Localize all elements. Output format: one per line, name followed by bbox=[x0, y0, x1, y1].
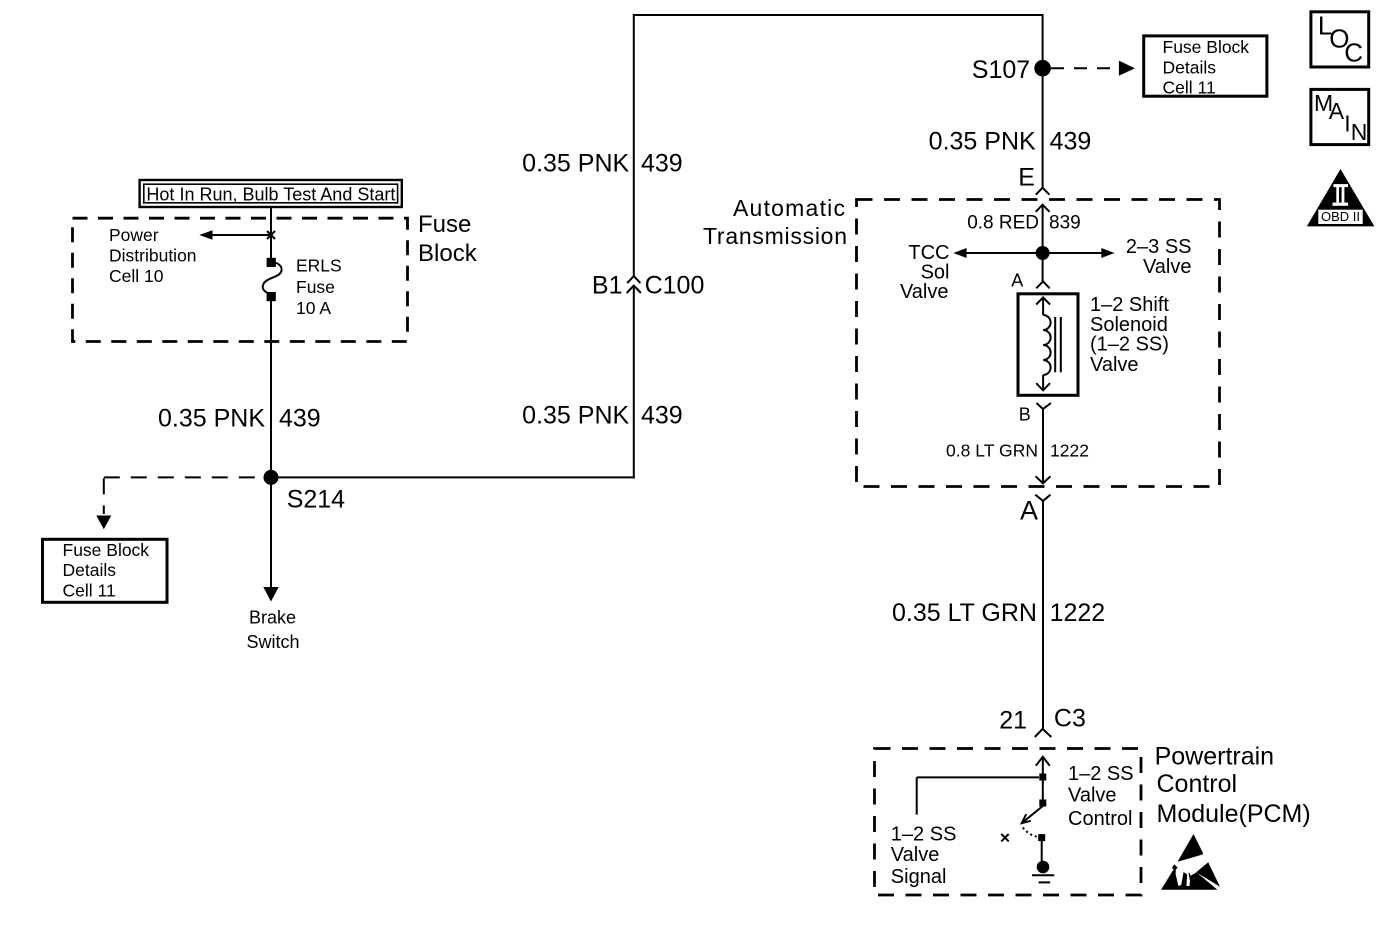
x mark at wire crossing bbox=[267, 231, 275, 239]
wire horizontal from S214 to middle vertical bbox=[271, 476, 635, 478]
wire from fuse down to S214 bbox=[270, 300, 272, 478]
svg-text:Hot In Run, Bulb Test And Star: Hot In Run, Bulb Test And Start bbox=[146, 184, 395, 204]
svg-text:N: N bbox=[1351, 119, 1368, 145]
dotted travel arc bbox=[1023, 828, 1038, 837]
svg-text:439: 439 bbox=[1050, 128, 1092, 156]
dashed arrow S107 to details box bbox=[1051, 61, 1135, 76]
svg-text:A: A bbox=[1020, 496, 1038, 526]
svg-text:0.35 PNK: 0.35 PNK bbox=[522, 150, 629, 178]
svg-text:C: C bbox=[1344, 37, 1363, 67]
node square 3 bbox=[1038, 834, 1045, 841]
arrowhead to Fuse Block Details box bbox=[96, 516, 111, 530]
wire square3 to ground bbox=[1041, 841, 1043, 861]
svg-text:E: E bbox=[1018, 164, 1035, 192]
brake switch arrow bbox=[263, 484, 278, 602]
svg-text:C100: C100 bbox=[645, 271, 705, 299]
node square 1 (valve signal tap) bbox=[1039, 774, 1046, 781]
connector chevron at E bbox=[1036, 188, 1050, 195]
solenoid core lines bbox=[1055, 317, 1061, 372]
svg-text:839: 839 bbox=[1049, 212, 1081, 233]
svg-text:1222: 1222 bbox=[1050, 440, 1089, 460]
wire from B down with arrow at AT box edge bbox=[1036, 409, 1051, 484]
x mark bbox=[1001, 834, 1008, 841]
wire from TCC dot to solenoid connector bbox=[1042, 253, 1044, 281]
arrows to TCC Sol Valve and 2-3 SS Valve bbox=[953, 248, 1114, 258]
svg-text:0.35 PNK: 0.35 PNK bbox=[929, 128, 1036, 156]
wire vertical right (x=1043) top segment bbox=[1042, 14, 1044, 188]
fuse ERLS (squares + S-curve) bbox=[263, 258, 282, 301]
svg-text:0.35 PNK: 0.35 PNK bbox=[522, 402, 629, 430]
svg-text:0.8 LT GRN: 0.8 LT GRN bbox=[946, 440, 1038, 460]
svg-text:Transmission: Transmission bbox=[703, 223, 847, 249]
ESD sensitivity symbol bbox=[1161, 834, 1220, 890]
svg-text:Automatic: Automatic bbox=[733, 195, 845, 221]
svg-text:Switch: Switch bbox=[246, 632, 299, 652]
wire to 1-2 SS valve signal bbox=[917, 777, 1039, 814]
solenoid coil element bbox=[1036, 297, 1050, 390]
svg-text:I: I bbox=[1344, 110, 1350, 136]
svg-text:Brake: Brake bbox=[249, 608, 296, 628]
svg-text:OBD II: OBD II bbox=[1321, 209, 1360, 224]
wire from Hot box into fuse bbox=[270, 208, 272, 260]
wire vertical middle (x=634) bbox=[633, 14, 635, 276]
PCM dashed box bbox=[875, 749, 1142, 896]
svg-text:B: B bbox=[1019, 405, 1031, 425]
svg-text:S214: S214 bbox=[287, 485, 345, 513]
TCC junction dot bbox=[1036, 246, 1050, 260]
wire square1 to square2 bbox=[1042, 780, 1044, 800]
wire from A connector down to C3 bbox=[1042, 501, 1044, 730]
svg-text:0.8 RED: 0.8 RED bbox=[967, 212, 1039, 233]
wire top horizontal bus bbox=[634, 14, 1043, 16]
node S214 junction dot bbox=[264, 470, 279, 485]
svg-text:B1: B1 bbox=[592, 271, 623, 299]
node square 2 (switch pivot) bbox=[1039, 800, 1046, 807]
arrow to Power Distribution bbox=[199, 230, 271, 240]
1-2 shift solenoid box bbox=[1018, 294, 1078, 396]
svg-text:0.35 LT GRN: 0.35 LT GRN bbox=[892, 599, 1037, 627]
svg-text:A: A bbox=[1329, 98, 1345, 124]
wire vertical middle lower segment below C100 bbox=[633, 286, 635, 479]
label box Hot In Run, Bulb Test And Start bbox=[140, 180, 402, 207]
svg-text:439: 439 bbox=[641, 150, 683, 178]
MAIN icon box bbox=[1311, 89, 1369, 144]
svg-text:1222: 1222 bbox=[1050, 599, 1106, 627]
node S107 junction dot bbox=[1034, 60, 1051, 77]
svg-text:439: 439 bbox=[641, 402, 683, 430]
fuse block dashed box bbox=[73, 218, 408, 341]
connector chevron A below AT box bbox=[1035, 495, 1050, 501]
ground ball bbox=[1037, 861, 1050, 874]
svg-text:A: A bbox=[1011, 270, 1023, 290]
connector chevron at 21/C3 bbox=[1035, 729, 1052, 737]
Automatic Transmission dashed box bbox=[857, 200, 1220, 487]
ground lines bbox=[1032, 875, 1054, 882]
svg-text:C3: C3 bbox=[1054, 705, 1086, 733]
OBD II icon triangle bbox=[1307, 169, 1375, 226]
svg-text:439: 439 bbox=[279, 404, 321, 432]
box Fuse Block Details Cell 11 (top right) bbox=[1144, 36, 1267, 98]
svg-text:21: 21 bbox=[999, 706, 1027, 734]
wire up-arrow entering PCM bbox=[1036, 757, 1050, 774]
svg-text:S107: S107 bbox=[972, 56, 1030, 84]
wire up-arrow entering AT box bbox=[1036, 205, 1050, 253]
svg-text:0.35 PNK: 0.35 PNK bbox=[158, 404, 265, 432]
switch arm with arrowhead bbox=[1022, 806, 1043, 823]
connector chevron at pin A bbox=[1036, 281, 1049, 288]
LOC icon box bbox=[1311, 11, 1369, 68]
box Fuse Block Details Cell 11 (left) bbox=[43, 539, 168, 602]
connector B1 C100 chevrons bbox=[627, 276, 641, 293]
dashed reference line to Fuse Block Details bbox=[104, 477, 263, 514]
connector chevron at pin B bbox=[1037, 403, 1051, 409]
